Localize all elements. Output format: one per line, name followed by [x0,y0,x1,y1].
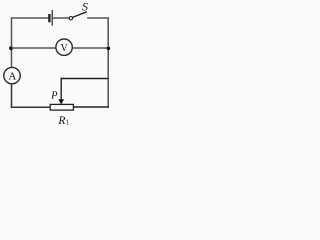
wire right vertical [107,17,109,107]
svg-text:V: V [60,43,68,54]
wire battery to switch [53,17,69,19]
rheostat R1 body [50,104,73,110]
junction dot right [107,47,111,51]
wire left vertical lower [11,84,13,108]
voltmeter V [56,39,72,55]
svg-text:A: A [8,70,16,82]
slider arrow P [58,78,64,105]
wire slider branch horizontal [61,78,109,80]
wire voltmeter branch left [12,47,56,49]
wire bottom right (right wire to R1 right terminal) [73,106,109,108]
battery cell [49,10,52,26]
wire voltmeter branch right [72,47,108,49]
wire switch to top-right corner [87,17,109,19]
switch S [69,12,87,20]
ammeter A [4,67,20,83]
svg-text:P: P [50,91,58,102]
svg-text:S: S [82,2,88,14]
wire left vertical upper [11,17,13,67]
junction dot left [9,46,13,50]
wire bottom left (ammeter loop to R1 left terminal) [12,106,51,108]
wire bottom-left corner [11,106,13,108]
wire top-left segment (battery to left corner) [12,17,49,19]
